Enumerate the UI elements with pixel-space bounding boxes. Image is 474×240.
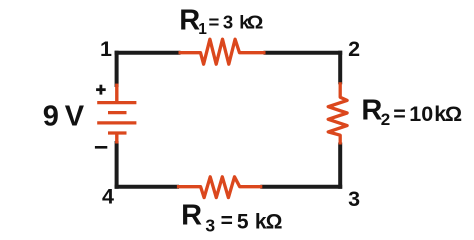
battery B1 top lead <box>115 84 118 102</box>
svg-text:4: 4 <box>102 185 114 209</box>
battery plate short <box>108 111 127 114</box>
svg-text:Ω: Ω <box>445 102 462 126</box>
resistor R3 <box>177 177 262 198</box>
svg-text:2: 2 <box>348 37 360 61</box>
svg-text:2: 2 <box>381 110 390 129</box>
wire right above R2 <box>338 51 342 85</box>
battery minus sign <box>95 146 107 149</box>
wire right below R2 <box>338 143 342 189</box>
svg-text:9: 9 <box>43 101 59 133</box>
battery plus sign <box>96 88 106 91</box>
battery plate long <box>97 121 136 124</box>
battery plate short bottom <box>108 131 127 134</box>
svg-text:R: R <box>179 4 200 36</box>
resistor R2 <box>328 82 347 144</box>
wire left upper (node1 to battery +) <box>115 51 119 87</box>
battery plate long top <box>97 101 136 104</box>
svg-text:10: 10 <box>409 102 433 126</box>
svg-text:3: 3 <box>223 12 233 33</box>
resistor R1 <box>179 39 266 64</box>
svg-text:V: V <box>65 101 85 133</box>
svg-text:R: R <box>361 94 382 126</box>
wire bottom right of R3 <box>260 185 342 189</box>
wire top right of R1 <box>264 51 343 55</box>
svg-text:1: 1 <box>198 21 207 38</box>
svg-text:=: = <box>221 209 233 232</box>
wire bottom left of R3 <box>115 185 179 189</box>
svg-text:Ω: Ω <box>247 13 264 34</box>
wire left lower (battery - to node4) <box>115 141 119 189</box>
svg-text:3: 3 <box>348 187 360 211</box>
svg-text:Ω: Ω <box>266 210 283 233</box>
svg-text:3: 3 <box>205 215 215 235</box>
battery B1 bottom lead <box>115 134 118 144</box>
svg-text:=: = <box>393 102 406 126</box>
svg-text:5: 5 <box>237 210 249 233</box>
svg-text:=: = <box>209 12 220 33</box>
svg-text:R: R <box>181 200 202 232</box>
svg-text:1: 1 <box>100 37 112 61</box>
wire top left of R1 <box>115 51 181 55</box>
